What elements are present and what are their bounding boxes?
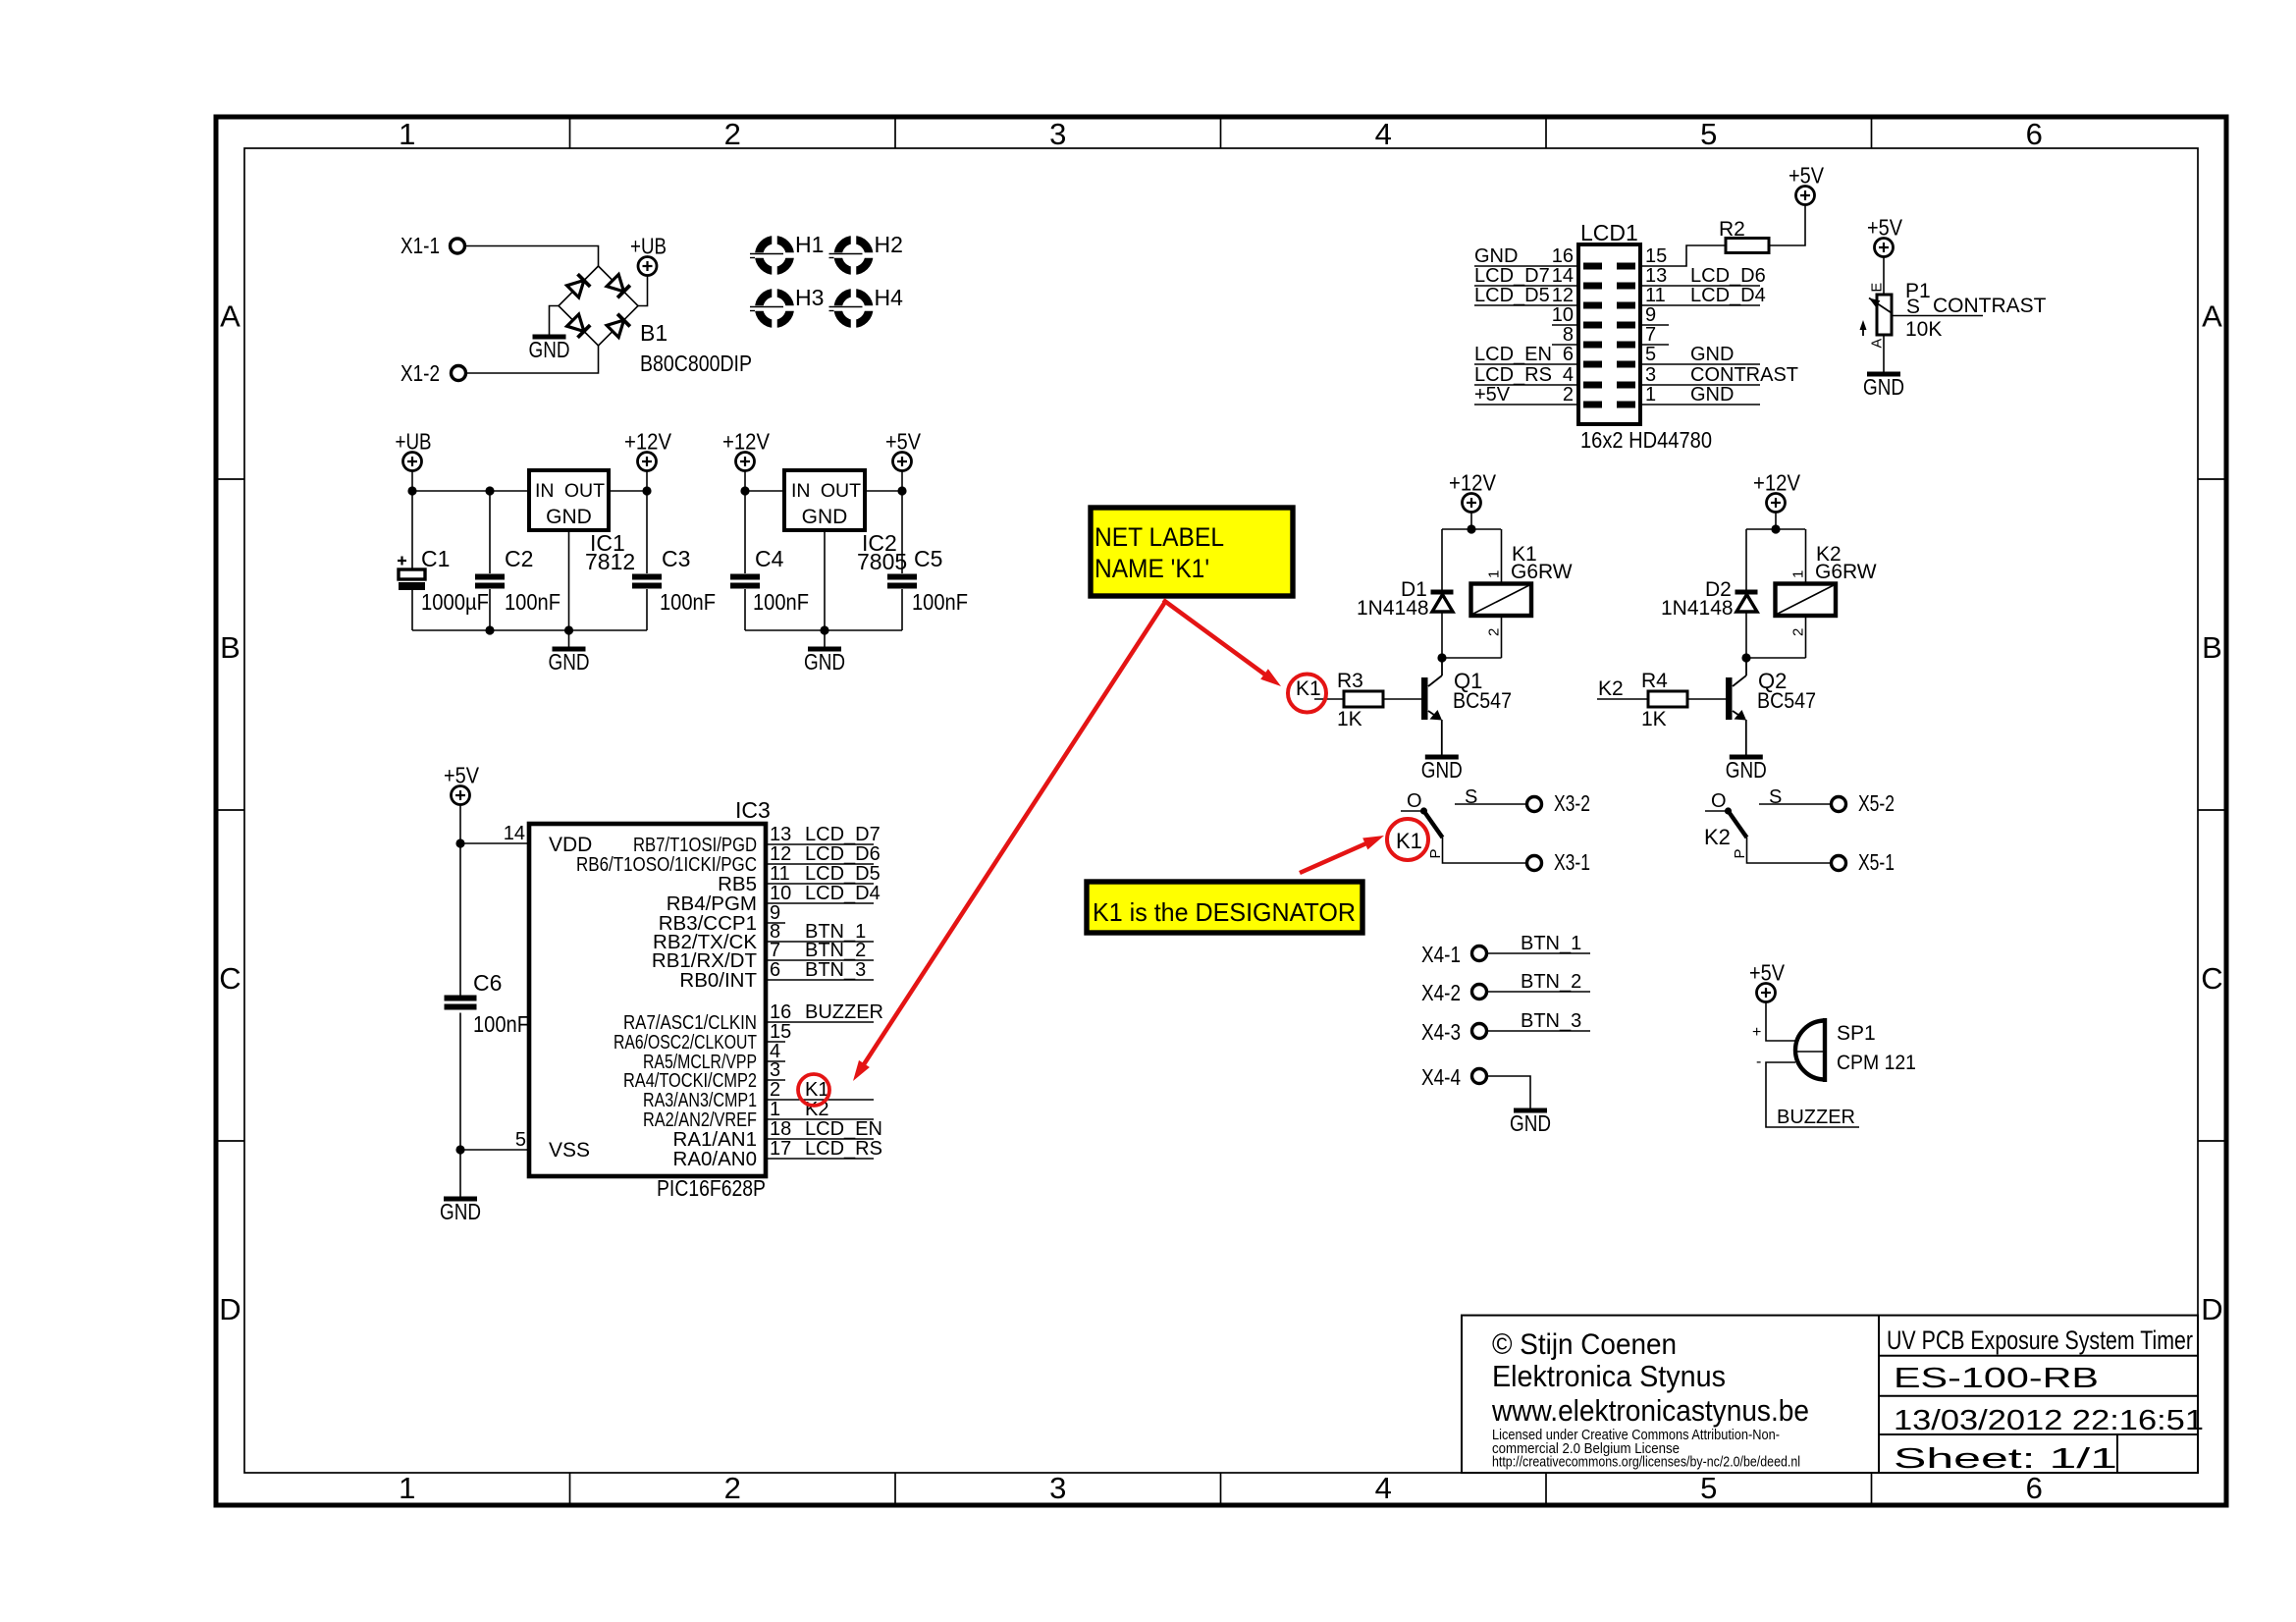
svg-text:NET LABEL: NET LABEL — [1095, 522, 1224, 552]
svg-text:C: C — [2201, 961, 2222, 996]
svg-text:14: 14 — [1552, 265, 1574, 287]
svg-text:GND: GND — [546, 506, 592, 528]
LCD1 pin 1 — [1640, 384, 1760, 405]
svg-text:10: 10 — [1552, 304, 1574, 326]
svg-text:BUZZER: BUZZER — [805, 1001, 883, 1023]
svg-text:X3-2: X3-2 — [1554, 790, 1590, 816]
svg-text:K2: K2 — [1598, 677, 1624, 700]
svg-text:O: O — [1711, 790, 1727, 812]
svg-text:RA0/AN0: RA0/AN0 — [673, 1148, 757, 1170]
svg-text:1: 1 — [399, 117, 415, 151]
wire P1 to gnd — [1883, 335, 1885, 372]
LCD1 pin 14 — [1474, 265, 1578, 287]
svg-text:13: 13 — [1645, 265, 1667, 287]
LCD1 pin 15 — [1640, 245, 1726, 267]
svg-text:2: 2 — [724, 117, 741, 151]
wire net K1 to R3 — [1314, 698, 1344, 700]
svg-text:+12V: +12V — [722, 429, 771, 455]
svg-text:PIC16F628P: PIC16F628P — [657, 1175, 766, 1201]
svg-text:GND: GND — [804, 649, 845, 675]
wire B1 plus to +UB — [638, 276, 648, 306]
connector X5-1 — [1832, 856, 1846, 871]
svg-text:1: 1 — [1645, 384, 1656, 405]
connector X3-1 — [1527, 856, 1542, 871]
svg-text:LCD_D4: LCD_D4 — [805, 883, 881, 904]
junction — [407, 486, 416, 495]
svg-text:P: P — [1427, 848, 1444, 858]
svg-text:7812: 7812 — [585, 549, 635, 574]
mounting hole H1 — [750, 232, 824, 276]
svg-text:+5V: +5V — [1749, 960, 1786, 986]
wire pin5 VSS — [460, 1149, 529, 1151]
svg-text:B80C800DIP: B80C800DIP — [640, 351, 752, 376]
svg-text:OUT: OUT — [564, 480, 605, 502]
svg-text:15: 15 — [1645, 245, 1667, 267]
svg-text:5: 5 — [1645, 344, 1656, 365]
svg-text:3: 3 — [1049, 1471, 1066, 1505]
wire coil to collector (K2) — [1746, 657, 1806, 659]
wire R4 to base — [1687, 698, 1726, 700]
red arrow callout2 to designator K1 — [1300, 841, 1371, 873]
svg-text:16x2 HD44780: 16x2 HD44780 — [1580, 427, 1712, 453]
svg-text:GND: GND — [1726, 757, 1767, 783]
wire input rail to IC1 — [412, 490, 529, 492]
svg-text:X4-1: X4-1 — [1421, 942, 1461, 967]
transistor Q1 BC547 — [1441, 658, 1443, 676]
svg-text:H2: H2 — [875, 232, 903, 257]
svg-text:A: A — [220, 299, 240, 334]
svg-text:GND: GND — [1510, 1110, 1551, 1136]
svg-text:X5-2: X5-2 — [1858, 790, 1895, 816]
power +5V (IC2 output) — [893, 453, 912, 471]
svg-text:C2: C2 — [505, 546, 533, 571]
wire R3 to base — [1383, 698, 1421, 700]
wire X1-1 to B1 AC1 — [465, 246, 599, 267]
svg-text:3: 3 — [1645, 364, 1656, 386]
svg-text:11: 11 — [770, 863, 790, 885]
wire gnd rail (IC1) — [412, 629, 647, 631]
svg-text:© Stijn Coenen: © Stijn Coenen — [1492, 1328, 1677, 1361]
pin 1 RA2/AN2/VREF — [643, 1099, 874, 1131]
svg-text:B: B — [220, 630, 240, 665]
svg-text:12: 12 — [770, 843, 791, 865]
svg-text:BTN_3: BTN_3 — [805, 959, 866, 981]
svg-text:4: 4 — [1563, 364, 1574, 386]
wire K1 S contact to X3-2 — [1455, 803, 1526, 805]
LCD1 pin 13 — [1640, 265, 1766, 287]
ground (Q2) — [1730, 755, 1763, 760]
ground (X4-4) — [1514, 1108, 1547, 1113]
svg-text:LCD_D7: LCD_D7 — [1474, 265, 1550, 287]
LCD1 pin 6 — [1474, 344, 1578, 365]
capacitor C6 — [445, 996, 477, 1001]
wire IC2 out to +5V — [865, 490, 902, 492]
wire P1 wiper CONTRAST — [1893, 315, 1983, 317]
resistor R3 — [1344, 691, 1383, 707]
svg-text:+12V: +12V — [1449, 470, 1497, 496]
svg-text:16: 16 — [1552, 245, 1574, 267]
svg-text:9: 9 — [1645, 304, 1656, 326]
svg-text:X4-2: X4-2 — [1421, 980, 1461, 1005]
LCD1 pin 11 — [1640, 285, 1766, 306]
svg-text:A: A — [1870, 339, 1886, 349]
svg-text:1000µF: 1000µF — [421, 589, 489, 615]
svg-text:+12V: +12V — [624, 429, 672, 455]
LCD1 pin 3 — [1640, 364, 1798, 386]
svg-text:10: 10 — [770, 883, 791, 904]
callout NET LABEL NAME 'K1' — [1091, 508, 1293, 596]
svg-text:+5V: +5V — [1789, 163, 1825, 189]
pin 15 RA6/OSC2/CLKOUT — [614, 1021, 791, 1054]
svg-text:+UB: +UB — [630, 234, 667, 259]
svg-text:ES-100-RB: ES-100-RB — [1894, 1363, 2099, 1394]
svg-text:IN: IN — [535, 480, 555, 502]
svg-text:+5V: +5V — [885, 429, 922, 455]
pin 3 RA4/TOCKI/CMP2 — [623, 1059, 785, 1092]
svg-text:1: 1 — [770, 1099, 780, 1120]
svg-text:1N4148: 1N4148 — [1661, 597, 1734, 620]
diode D1 1N4148 — [1441, 529, 1443, 658]
svg-text:-: - — [1756, 1054, 1761, 1070]
diode D2 1N4148 — [1745, 529, 1747, 658]
wire +5V to SP1 plus — [1766, 1002, 1795, 1042]
svg-text:OUT: OUT — [821, 480, 861, 502]
svg-text:1: 1 — [399, 1471, 415, 1505]
svg-text:LCD_D5: LCD_D5 — [1474, 285, 1550, 306]
svg-text:13: 13 — [770, 824, 791, 845]
power +5V (P1) — [1875, 239, 1894, 257]
pin 4 RA5/MCLR/VPP — [643, 1041, 785, 1073]
svg-text:C5: C5 — [914, 546, 942, 571]
LCD1 pin 5 — [1640, 344, 1760, 365]
svg-text:GND: GND — [1863, 374, 1904, 400]
power +12V (K1 driver) — [1463, 494, 1481, 513]
wire K2 P contact to X5-1 — [1747, 838, 1832, 863]
LCD1 pin 16 — [1474, 245, 1578, 267]
mounting hole H2 — [829, 232, 903, 276]
wire R2 to +5V — [1769, 205, 1805, 246]
svg-text:4: 4 — [1375, 1471, 1392, 1505]
power +UB (supply rail) — [403, 453, 422, 471]
svg-text:100nF: 100nF — [473, 1011, 529, 1037]
svg-text:7: 7 — [1645, 324, 1656, 346]
wire pin14 VDD — [460, 842, 529, 844]
svg-text:15: 15 — [770, 1021, 791, 1043]
svg-text:E: E — [1870, 283, 1886, 293]
power +12V (IC1 output) — [638, 453, 657, 471]
svg-text:GND: GND — [1690, 344, 1734, 365]
capacitor C1 — [411, 491, 413, 569]
svg-text:Sheet: 1/1: Sheet: 1/1 — [1894, 1443, 2117, 1475]
relay contact K1 — [1401, 786, 1477, 859]
svg-text:LCD_EN: LCD_EN — [805, 1118, 882, 1140]
svg-text:X1-1: X1-1 — [400, 233, 440, 258]
connector X5-2 — [1832, 797, 1846, 812]
svg-text:2: 2 — [1563, 384, 1574, 405]
capacitor C2 — [489, 491, 491, 573]
power +5V (SP1) — [1757, 984, 1776, 1002]
title block — [1462, 1316, 2204, 1475]
pin 13 RB7/T1OSI/PGD — [633, 824, 881, 856]
LCD1 pin 9 — [1640, 304, 1669, 326]
svg-text:CPM 121: CPM 121 — [1837, 1052, 1916, 1074]
power +12V (IC2 input) — [736, 453, 755, 471]
LCD1 pin 8 — [1552, 324, 1578, 346]
svg-text:2: 2 — [1790, 628, 1807, 636]
svg-text:5: 5 — [1700, 117, 1717, 151]
wire +5V to P1 — [1883, 257, 1885, 296]
svg-text:K2: K2 — [1704, 825, 1731, 849]
svg-text:CONTRAST: CONTRAST — [1933, 295, 2047, 317]
svg-text:LCD_D6: LCD_D6 — [805, 843, 881, 865]
svg-text:http://creativecommons.org/lic: http://creativecommons.org/licenses/by-n… — [1492, 1454, 1800, 1471]
ground (Q1) — [1425, 755, 1459, 760]
svg-text:+5V: +5V — [1867, 215, 1903, 241]
svg-text:14: 14 — [504, 823, 525, 844]
svg-text:R3: R3 — [1337, 670, 1363, 692]
wire X4-3 BTN_3 — [1487, 1030, 1591, 1032]
svg-text:LCD_RS: LCD_RS — [805, 1138, 882, 1160]
svg-text:LCD_D4: LCD_D4 — [1690, 285, 1766, 306]
svg-text:X3-1: X3-1 — [1554, 849, 1590, 875]
pin 8 RB2/TX/CK — [653, 921, 874, 953]
svg-text:BTN_2: BTN_2 — [805, 940, 866, 961]
svg-text:C4: C4 — [755, 546, 784, 571]
mounting hole H4 — [829, 285, 904, 329]
relay K1 G6RW coil — [1501, 529, 1503, 584]
svg-text:6: 6 — [770, 959, 780, 981]
ground (P1) — [1867, 372, 1900, 377]
svg-text:5: 5 — [1700, 1471, 1717, 1505]
capacitor C5 — [901, 491, 903, 573]
wire coil to collector (K1) — [1442, 657, 1502, 659]
svg-text:6: 6 — [2026, 117, 2043, 151]
svg-text:RB0/INT: RB0/INT — [679, 969, 757, 992]
LCD1 pin 12 — [1474, 285, 1578, 306]
svg-text:5: 5 — [515, 1129, 526, 1151]
red circle around net label K1 — [1288, 675, 1326, 713]
wire net K2 to R4 — [1597, 698, 1647, 700]
wire SP1 minus to BUZZER — [1766, 1062, 1859, 1127]
svg-text:SP1: SP1 — [1837, 1022, 1876, 1045]
pin 12 RB6/T1OSO/1ICKI/PGC — [576, 843, 881, 876]
svg-text:R4: R4 — [1641, 670, 1668, 692]
svg-text:1K: 1K — [1641, 708, 1667, 730]
svg-text:2: 2 — [1486, 628, 1503, 636]
svg-text:X4-3: X4-3 — [1421, 1019, 1461, 1045]
wire K1 P contact to X3-1 — [1443, 838, 1527, 863]
svg-text:BTN_2: BTN_2 — [1521, 971, 1581, 993]
svg-text:LCD_EN: LCD_EN — [1474, 344, 1552, 365]
svg-text:NAME 'K1': NAME 'K1' — [1095, 554, 1209, 583]
svg-text:+: + — [1752, 1024, 1761, 1041]
pin 18 RA1/AN1 — [673, 1118, 882, 1151]
red arrow callout1 to IC3 pin K1 — [861, 602, 1165, 1069]
LCD1 pin 4 — [1474, 364, 1578, 386]
svg-text:6: 6 — [2026, 1471, 2043, 1505]
svg-text:GND: GND — [1421, 757, 1463, 783]
bridge rectifier B1 — [559, 266, 638, 346]
svg-text:C1: C1 — [421, 546, 450, 571]
svg-text:11: 11 — [1645, 285, 1666, 306]
pin 2 RA3/AN3/CMP1 — [643, 1079, 874, 1111]
svg-text:+UB: +UB — [396, 429, 432, 455]
svg-text:GND: GND — [802, 506, 848, 528]
svg-text:1N4148: 1N4148 — [1357, 597, 1429, 620]
svg-text:D: D — [219, 1292, 240, 1326]
svg-text:D: D — [2201, 1292, 2222, 1326]
svg-text:3: 3 — [770, 1059, 780, 1081]
svg-text:BTN_1: BTN_1 — [1521, 933, 1581, 954]
svg-text:X4-4: X4-4 — [1421, 1064, 1461, 1090]
svg-text:+5V: +5V — [444, 763, 480, 788]
svg-text:10K: 10K — [1905, 318, 1942, 341]
speaker SP1 CPM 121 — [1795, 1018, 1916, 1082]
svg-text:B1: B1 — [640, 320, 667, 346]
callout K1 is the DESIGNATOR — [1087, 882, 1362, 933]
pin 16 RA7/ASC1/CLKIN — [623, 1001, 883, 1034]
wire K2 S contact to X5-2 — [1759, 803, 1831, 805]
ground (IC1) — [568, 530, 570, 649]
LCD1 pin 2 — [1474, 384, 1578, 405]
pin 6 RB0/INT — [679, 959, 874, 992]
potentiometer P1 — [1877, 295, 1892, 335]
svg-text:GND: GND — [440, 1199, 481, 1224]
resistor R4 — [1648, 691, 1687, 707]
svg-text:K1: K1 — [1396, 829, 1422, 853]
svg-text:1: 1 — [1486, 570, 1503, 578]
svg-text:4: 4 — [1375, 117, 1392, 151]
pin 11 RB5 — [718, 863, 881, 895]
power +UB (bridge output) — [638, 257, 657, 276]
voltage regulator IC1 — [529, 470, 609, 530]
svg-text:LCD_D7: LCD_D7 — [805, 824, 881, 845]
svg-text:K1: K1 — [1296, 677, 1321, 700]
voltage regulator IC2 — [784, 470, 865, 530]
svg-text:100nF: 100nF — [912, 589, 968, 615]
svg-text:100nF: 100nF — [505, 589, 561, 615]
wire +UB to rail — [411, 471, 413, 492]
svg-text:LCD_D5: LCD_D5 — [805, 863, 881, 885]
svg-text:H1: H1 — [795, 232, 824, 257]
svg-text:BC547: BC547 — [1757, 688, 1816, 713]
svg-text:O: O — [1407, 790, 1422, 812]
svg-text:1K: 1K — [1337, 708, 1362, 730]
svg-text:G6RW: G6RW — [1511, 561, 1573, 583]
svg-text:8: 8 — [1563, 324, 1574, 346]
svg-text:H4: H4 — [875, 285, 904, 310]
svg-text:17: 17 — [770, 1138, 791, 1160]
svg-text:X5-1: X5-1 — [1858, 849, 1895, 875]
svg-text:12: 12 — [1552, 285, 1574, 306]
svg-text:2: 2 — [770, 1079, 780, 1101]
power +12V (K2 driver) — [1767, 494, 1786, 513]
svg-text:BUZZER: BUZZER — [1777, 1107, 1855, 1128]
transistor Q2 BC547 — [1745, 658, 1747, 676]
svg-text:18: 18 — [770, 1118, 791, 1140]
pin 10 RB4/PGM — [667, 883, 881, 915]
svg-text:K1: K1 — [805, 1079, 828, 1101]
svg-text:13/03/2012 22:16:51: 13/03/2012 22:16:51 — [1894, 1405, 2204, 1436]
ground (IC3) — [444, 1197, 477, 1202]
svg-text:GND: GND — [1474, 245, 1518, 267]
capacitor C3 — [646, 491, 648, 573]
svg-text:+5V: +5V — [1474, 384, 1511, 405]
svg-text:GND: GND — [1690, 384, 1734, 405]
pin 7 RB1/RX/DT — [652, 940, 874, 972]
svg-text:CONTRAST: CONTRAST — [1690, 364, 1798, 386]
connector X3-2 — [1527, 797, 1542, 812]
red arrow callout1 to net label K1 — [1163, 600, 1270, 678]
LCD1 pin 7 — [1640, 324, 1669, 346]
ground (bridge B1) — [550, 306, 560, 336]
svg-text:K1 is the DESIGNATOR: K1 is the DESIGNATOR — [1093, 897, 1356, 927]
svg-text:LCD_D6: LCD_D6 — [1690, 265, 1766, 287]
resistor R2 — [1726, 239, 1769, 253]
svg-text:100nF: 100nF — [753, 589, 809, 615]
capacitor C4 — [744, 491, 746, 573]
svg-text:G6RW: G6RW — [1815, 561, 1877, 583]
relay contact K2 — [1705, 786, 1782, 859]
svg-text:3: 3 — [1049, 117, 1066, 151]
wire X4-1 BTN_1 — [1487, 952, 1591, 954]
connector LCD1 — [1578, 244, 1640, 424]
red circle around designator K1 — [1387, 819, 1428, 860]
svg-text:C: C — [219, 961, 240, 996]
svg-text:100nF: 100nF — [660, 589, 716, 615]
wire +12V rail (K1) — [1442, 528, 1501, 530]
svg-text:B: B — [2202, 630, 2222, 665]
svg-text:H3: H3 — [795, 285, 824, 310]
svg-text:VSS: VSS — [549, 1139, 590, 1162]
svg-text:IN: IN — [791, 480, 811, 502]
svg-text:BTN_3: BTN_3 — [1521, 1010, 1581, 1032]
ground (IC2) — [824, 530, 826, 649]
relay K2 G6RW coil — [1805, 529, 1807, 584]
svg-text:BC547: BC547 — [1453, 688, 1512, 713]
svg-text:A: A — [2202, 299, 2222, 334]
wire X4-4 to gnd — [1487, 1076, 1531, 1108]
LCD1 pin 10 — [1552, 304, 1578, 326]
svg-text:GND: GND — [549, 649, 590, 675]
svg-text:6: 6 — [1563, 344, 1574, 365]
wire +12V to IC2 — [745, 490, 784, 492]
svg-text:7805: 7805 — [857, 549, 907, 574]
wire X1-2 to B1 AC2 — [466, 346, 599, 373]
svg-text:GND: GND — [529, 337, 570, 362]
svg-text:P: P — [1732, 848, 1748, 858]
pin 9 RB3/CCP1 — [659, 902, 785, 935]
svg-text:LCD1: LCD1 — [1580, 220, 1638, 245]
wire IC1 out to +12V — [609, 490, 647, 492]
svg-text:www.elektronicastynus.be: www.elektronicastynus.be — [1491, 1393, 1809, 1428]
svg-text:Elektronica Stynus: Elektronica Stynus — [1492, 1359, 1726, 1393]
wire +5V to VDD and VSS — [459, 805, 461, 996]
pin 17 RA0/AN0 — [673, 1138, 882, 1170]
svg-text:X1-2: X1-2 — [400, 360, 440, 386]
svg-text:IC3: IC3 — [735, 797, 771, 823]
svg-text:UV PCB Exposure System Timer: UV PCB Exposure System Timer — [1887, 1325, 2193, 1355]
wire +12V rail (K2) — [1746, 528, 1805, 530]
svg-text:LCD_RS: LCD_RS — [1474, 364, 1552, 386]
wire gnd rail (IC2) — [745, 629, 902, 631]
svg-text:16: 16 — [770, 1001, 791, 1023]
power +5V (IC3) — [452, 786, 470, 805]
svg-text:2: 2 — [724, 1471, 741, 1505]
svg-text:+12V: +12V — [1753, 470, 1801, 496]
wire X4-2 BTN_2 — [1487, 991, 1591, 993]
svg-text:S: S — [1906, 296, 1920, 318]
